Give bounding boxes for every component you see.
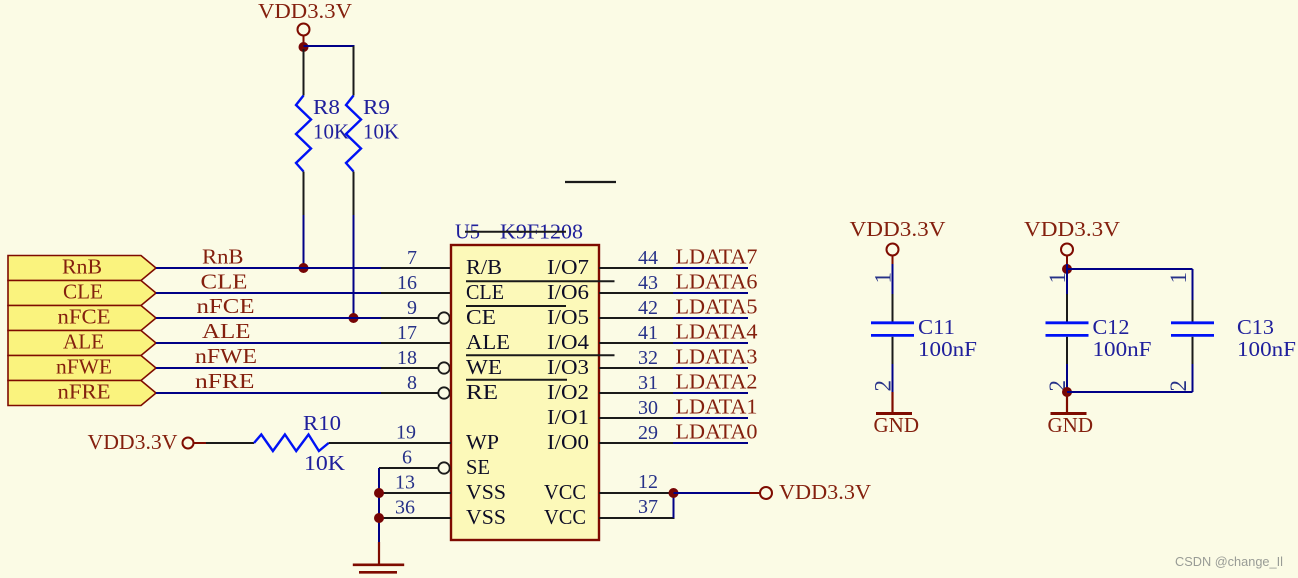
- wire VDD to R9: [304, 45, 355, 47]
- wire net LDATA4: [673, 342, 748, 344]
- wire net LDATA1: [673, 417, 748, 419]
- svg-text:R8: R8: [313, 95, 340, 119]
- power port VDD3.3V (C12): [1024, 217, 1120, 264]
- svg-text:CLE: CLE: [466, 280, 504, 304]
- wire R9 to nFCE net: [353, 215, 355, 318]
- port nFWE: [8, 355, 156, 381]
- junction at VDD / R8 / R9: [299, 42, 309, 52]
- svg-text:16: 16: [397, 272, 417, 294]
- resistor R8: [296, 49, 349, 215]
- svg-text:LDATA4: LDATA4: [676, 320, 759, 344]
- svg-text:30: 30: [638, 397, 658, 419]
- svg-text:ALE: ALE: [202, 319, 251, 343]
- svg-text:LDATA7: LDATA7: [676, 245, 758, 269]
- wire net row y=368: [156, 367, 381, 369]
- pin 37 (VCC): [599, 496, 675, 518]
- wire through designator: [465, 231, 566, 233]
- svg-text:100nF: 100nF: [1237, 337, 1296, 361]
- svg-text:ALE: ALE: [63, 330, 104, 354]
- svg-text:CLE: CLE: [63, 280, 103, 304]
- svg-text:18: 18: [397, 347, 417, 369]
- wire net LDATA3: [673, 367, 748, 369]
- svg-text:SE: SE: [466, 455, 490, 479]
- svg-text:nFCE: nFCE: [197, 294, 255, 318]
- wire C12 to C13 bottom: [1067, 391, 1193, 393]
- pin 9: [381, 297, 450, 324]
- svg-text:I/O3: I/O3: [547, 355, 589, 379]
- svg-text:29: 29: [638, 422, 658, 444]
- port CLE: [8, 280, 156, 306]
- svg-text:VDD3.3V: VDD3.3V: [850, 217, 946, 241]
- power port VDD3.3V right: [750, 480, 871, 504]
- svg-text:7: 7: [407, 247, 417, 269]
- pin 8: [381, 372, 450, 399]
- svg-text:nFRE: nFRE: [58, 380, 111, 404]
- svg-text:LDATA5: LDATA5: [676, 295, 758, 319]
- svg-text:CSDN @change_Il: CSDN @change_Il: [1175, 554, 1283, 569]
- overline CLE row: [466, 280, 615, 282]
- power port GND (C11): [874, 392, 920, 437]
- junction C12 top: [1062, 264, 1072, 274]
- wire VDD to R10: [206, 442, 254, 444]
- svg-text:I/O4: I/O4: [547, 330, 590, 354]
- svg-text:VCC: VCC: [544, 505, 586, 529]
- svg-text:I/O2: I/O2: [547, 380, 589, 404]
- svg-text:nFRE: nFRE: [195, 369, 255, 393]
- svg-text:VDD3.3V: VDD3.3V: [88, 430, 178, 454]
- pin 30: [599, 397, 673, 419]
- svg-text:VDD3.3V: VDD3.3V: [1024, 217, 1120, 241]
- svg-text:13: 13: [395, 472, 415, 494]
- overline WE row: [466, 354, 615, 356]
- svg-text:RE: RE: [466, 380, 498, 404]
- wire net LDATA0: [673, 442, 748, 444]
- wire net row y=318: [156, 317, 381, 319]
- junction VCC: [669, 488, 679, 498]
- svg-text:LDATA6: LDATA6: [676, 270, 758, 294]
- ground symbol: [353, 542, 404, 572]
- junction R8 / RnB: [299, 263, 309, 273]
- svg-text:I/O6: I/O6: [547, 280, 589, 304]
- wire net LDATA7: [673, 267, 748, 269]
- svg-text:17: 17: [397, 322, 417, 344]
- svg-text:R10: R10: [303, 411, 341, 435]
- svg-text:WP: WP: [466, 430, 499, 454]
- svg-text:VCC: VCC: [544, 480, 586, 504]
- port ALE: [8, 330, 156, 356]
- svg-text:I/O7: I/O7: [547, 255, 589, 279]
- capacitor C11: [871, 264, 978, 392]
- svg-text:12: 12: [638, 471, 658, 493]
- svg-text:1: 1: [1166, 272, 1191, 284]
- svg-text:1: 1: [871, 272, 896, 284]
- wire VCC to VDD: [674, 492, 751, 494]
- svg-text:C12: C12: [1093, 315, 1130, 339]
- wire net row y=343: [156, 342, 381, 344]
- wire net LDATA6: [673, 292, 748, 294]
- svg-text:VDD3.3V: VDD3.3V: [779, 480, 871, 504]
- svg-text:CLE: CLE: [201, 270, 248, 294]
- svg-text:44: 44: [638, 247, 658, 269]
- pin 7: [381, 247, 451, 269]
- junction VSS 13: [374, 488, 384, 498]
- svg-text:GND: GND: [874, 413, 920, 437]
- svg-text:RnB: RnB: [62, 255, 102, 279]
- svg-text:nFWE: nFWE: [195, 344, 257, 368]
- svg-text:32: 32: [638, 347, 658, 369]
- svg-text:LDATA0: LDATA0: [676, 420, 758, 444]
- wire VCC vertical: [673, 493, 675, 518]
- pin 13 (VSS): [379, 472, 451, 494]
- svg-text:WE: WE: [466, 355, 502, 379]
- svg-text:9: 9: [407, 297, 417, 319]
- junction VSS 36: [374, 513, 384, 523]
- power port VDD3.3V (R10): [88, 430, 207, 454]
- port nFRE: [8, 380, 156, 406]
- svg-text:8: 8: [407, 372, 417, 394]
- pin 42: [599, 297, 673, 319]
- overline CE row: [466, 305, 566, 307]
- capacitor C12: [1045, 264, 1152, 392]
- wire net row y=268: [156, 267, 381, 269]
- resistor R9: [346, 46, 399, 215]
- svg-text:R9: R9: [363, 95, 390, 119]
- wire R8 to RnB net: [303, 215, 305, 268]
- svg-text:I/O0: I/O0: [547, 430, 589, 454]
- svg-text:nFWE: nFWE: [56, 355, 112, 379]
- capacitor C13: [1166, 269, 1296, 392]
- pin 29: [599, 422, 673, 444]
- svg-text:LDATA2: LDATA2: [676, 370, 758, 394]
- junction R9 / nFCE: [349, 313, 359, 323]
- IC U5 K9F1208 body: [451, 245, 599, 540]
- svg-text:37: 37: [638, 496, 658, 518]
- pin 31: [599, 372, 673, 394]
- resistor R10: [254, 411, 345, 475]
- pin 12 (VCC): [599, 471, 669, 493]
- wire net LDATA5: [673, 317, 748, 319]
- pin 6 (SE): [379, 447, 450, 474]
- pin 36 (VSS): [379, 497, 451, 519]
- svg-text:43: 43: [638, 272, 658, 294]
- pin 32: [599, 347, 673, 369]
- svg-text:10K: 10K: [313, 120, 349, 144]
- svg-text:ALE: ALE: [466, 330, 510, 354]
- svg-text:nFCE: nFCE: [58, 305, 111, 329]
- svg-text:C11: C11: [918, 315, 955, 339]
- svg-text:10K: 10K: [363, 120, 399, 144]
- svg-text:31: 31: [638, 372, 658, 394]
- svg-text:CE: CE: [466, 305, 496, 329]
- wire net row y=393: [156, 392, 381, 394]
- wire SE/VSS vertical: [378, 468, 380, 542]
- pin 41: [599, 322, 673, 344]
- svg-text:R/B: R/B: [466, 255, 502, 279]
- svg-text:6: 6: [402, 447, 412, 469]
- svg-text:C13: C13: [1237, 315, 1274, 339]
- wire C12 to C13 top: [1067, 268, 1193, 270]
- svg-text:2: 2: [1166, 380, 1191, 392]
- svg-text:I/O1: I/O1: [547, 405, 589, 429]
- power port GND (C12): [1048, 392, 1094, 437]
- power port VDD3.3V (C11): [850, 217, 946, 264]
- wire net row y=293: [156, 292, 381, 294]
- no-ERC line segment: [565, 181, 616, 183]
- svg-text:2: 2: [871, 380, 896, 392]
- svg-text:41: 41: [638, 322, 658, 344]
- junction C12 bottom: [1062, 387, 1072, 397]
- pin 18: [381, 347, 450, 374]
- svg-text:100nF: 100nF: [1093, 337, 1152, 361]
- port nFCE: [8, 305, 156, 331]
- pin 43: [599, 272, 673, 294]
- svg-text:GND: GND: [1048, 413, 1094, 437]
- svg-text:1: 1: [1045, 272, 1070, 284]
- svg-text:VSS: VSS: [466, 505, 506, 529]
- pin 17: [381, 322, 451, 344]
- svg-text:10K: 10K: [304, 451, 345, 475]
- port RnB: [8, 255, 156, 281]
- wire net LDATA2: [673, 392, 748, 394]
- svg-text:I/O5: I/O5: [547, 305, 589, 329]
- pin 44: [599, 247, 673, 269]
- wire R10 to WP: [329, 442, 451, 444]
- svg-text:LDATA3: LDATA3: [676, 345, 758, 369]
- svg-text:36: 36: [395, 497, 415, 519]
- svg-text:LDATA1: LDATA1: [676, 395, 758, 419]
- power port VDD3.3V top: [258, 0, 352, 44]
- pin 16: [381, 272, 451, 294]
- svg-text:100nF: 100nF: [918, 337, 977, 361]
- svg-text:VDD3.3V: VDD3.3V: [258, 0, 352, 23]
- svg-text:RnB: RnB: [202, 245, 244, 269]
- svg-text:VSS: VSS: [466, 480, 506, 504]
- overline RE row: [466, 379, 567, 381]
- svg-text:42: 42: [638, 297, 658, 319]
- svg-text:19: 19: [396, 422, 416, 444]
